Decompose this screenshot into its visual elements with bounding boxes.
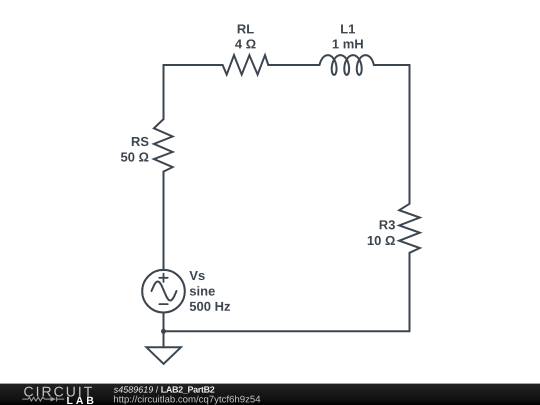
wire: bottom rail (ground node to bottom-right corner) [164, 330, 410, 332]
label Vs [189, 271, 204, 280]
wire: top rail left segment (top-left corner to RL) [164, 65, 223, 66]
wire: left rail upper segment (top-left corner to RS) [163, 65, 165, 119]
voltage source Vs: sine waveform glyph [152, 282, 177, 301]
ground symbol [146, 347, 181, 364]
wire: right rail lower segment (R3 to bottom-right corner) [409, 253, 411, 331]
wire: top rail middle segment (RL to L1) [268, 64, 319, 66]
CircuitLab logo wordmark CIRCUIT [24, 387, 92, 397]
footer schematic id text: s4589619 / LAB2_PartB2 [114, 386, 215, 394]
label R3 value 10 Ω [368, 236, 395, 245]
label RL [238, 24, 254, 33]
label RL value 4 Ω [235, 39, 256, 48]
voltage source Vs: circle body [142, 270, 185, 313]
wire: right rail upper segment (top-right corner to R3) [409, 65, 411, 204]
label Vs waveform type sine [190, 286, 215, 296]
CircuitLab logo resistor squiggle wire [22, 397, 50, 401]
resistor RL [223, 55, 269, 74]
CircuitLab logo wordmark LAB [67, 397, 93, 404]
label Vs frequency 500 Hz [190, 302, 230, 311]
footer url text [114, 395, 260, 404]
wire: ground node to ground symbol [163, 331, 165, 347]
label RS value 50 Ω [121, 152, 149, 161]
wire: Vs source bottom to ground node [163, 313, 165, 332]
label L1 value 1 mH [333, 39, 363, 48]
wire: top rail right segment (L1 to top-right corner) [374, 65, 410, 66]
label R3 [380, 220, 395, 229]
label RS [132, 137, 149, 146]
footer bar [0, 384, 540, 405]
resistor R3 [399, 204, 420, 253]
resistor RS [154, 119, 173, 172]
CircuitLab logo diode symbol [51, 397, 56, 402]
node: junction dot (Vs minus / bottom rail / ground) [161, 329, 166, 334]
label L1 [341, 24, 355, 33]
voltage source Vs: plus polarity mark [159, 274, 167, 282]
inductor L1 [320, 55, 374, 75]
wire: left rail lower segment (RS to Vs source) [163, 172, 165, 270]
voltage source Vs: minus polarity mark [159, 303, 167, 305]
